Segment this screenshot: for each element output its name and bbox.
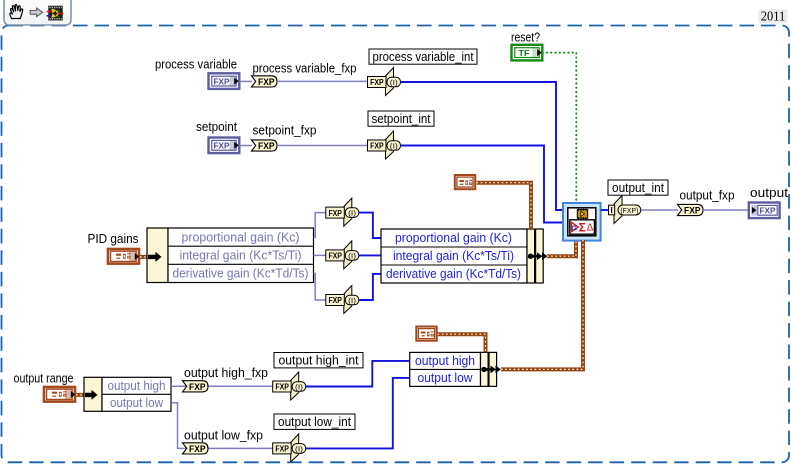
cluster constant above output bundle — [416, 327, 436, 341]
svg-text:process variable: process variable — [155, 58, 237, 72]
wire: cluster constant to output bundle (brown dotted) — [438, 334, 486, 352]
svg-text:FXP: FXP — [214, 76, 230, 86]
label: output high_fxp — [184, 366, 268, 380]
svg-text:derivative gain (Kc*Td/Ts): derivative gain (Kc*Td/Ts) — [173, 267, 309, 281]
wire label tag: output high FXP — [183, 381, 209, 392]
svg-text:FXP: FXP — [760, 206, 776, 216]
boxed label: output_int — [608, 180, 668, 195]
label: output_fxp — [680, 189, 735, 203]
toolbar panel — [4, 0, 71, 25]
wire: derivative gain fxp (slate) — [314, 273, 327, 300]
label: output — [750, 186, 789, 200]
toolbar VI icon — [47, 6, 64, 20]
wire label tag: output FXP — [678, 204, 704, 215]
wire: tag to conversion (fxp) — [277, 80, 368, 82]
control terminal: setpoint (FXP) — [209, 138, 240, 154]
svg-text:reset?: reset? — [511, 31, 540, 45]
wire: PID gains to unbundle (brown dotted) — [140, 255, 150, 259]
conversion node: proportional gain FXP to I — [326, 198, 359, 226]
bundle by name: output clamp — [410, 352, 501, 386]
control terminal: process variable (FXP) — [209, 73, 240, 89]
conversion node: integral gain FXP to I — [326, 241, 359, 269]
bundle by name: PID gains int — [381, 229, 548, 283]
svg-text:integral gain (Kc*Ts/Ti): integral gain (Kc*Ts/Ti) — [180, 249, 302, 263]
label: PID gains — [88, 232, 139, 246]
conversion node: output low FXP to I — [273, 434, 306, 462]
toolbar arrow icon — [30, 8, 42, 17]
wire: setpoint terminal to tag — [239, 145, 252, 147]
wire: conversion to output fxp tag (slate) — [641, 209, 678, 211]
svg-text:output_fxp: output_fxp — [680, 189, 735, 203]
wire: PID bundle to subVI (brown dotted) — [547, 240, 576, 256]
wire: output range to unbundle (brown dotted) — [76, 393, 87, 397]
svg-text:output low_fxp: output low_fxp — [184, 429, 263, 443]
conversion node: output I to FXP — [609, 196, 641, 224]
conversion node: output high FXP to I — [273, 372, 306, 400]
wire: integral gain int to bundle (blue) — [359, 254, 382, 256]
boxed label: process variable_int — [369, 49, 477, 64]
wire: tag to conversion — [277, 145, 368, 147]
wire: integral gain fxp (slate) — [314, 254, 327, 256]
svg-text:setpoint: setpoint — [196, 120, 237, 134]
label: process variable_fxp — [253, 62, 357, 76]
boxed label: output high_int — [274, 353, 363, 368]
wire: proportional gain int to bundle (blue) — [359, 213, 382, 238]
svg-text:output low: output low — [418, 371, 474, 385]
label: setpoint — [196, 120, 237, 134]
control terminal: reset? (TF boolean) — [512, 45, 543, 61]
svg-text:integral gain (Kc*Ts/Ti): integral gain (Kc*Ts/Ti) — [393, 249, 514, 263]
wire: output high int to bundle (blue) — [306, 361, 410, 387]
svg-text:TF: TF — [519, 48, 530, 58]
toolbar hand icon — [10, 5, 23, 19]
boxed label: setpoint_int — [368, 111, 434, 126]
label: setpoint_fxp — [253, 124, 317, 138]
label: reset? — [511, 31, 540, 45]
wire: subVI output to conversion (blue) — [601, 209, 609, 211]
svg-text:Δ: Δ — [587, 223, 594, 234]
conversion node: process variable FXP to I — [368, 68, 401, 96]
wire: reset? to subVI (green dotted) — [543, 53, 577, 203]
boxed label: output low_int — [274, 414, 355, 429]
svg-text:process variable_fxp: process variable_fxp — [253, 62, 357, 76]
svg-text:output low: output low — [110, 396, 164, 410]
wire label tag: setpoint FXP — [252, 140, 278, 151]
subVI: FXP PID node — [563, 203, 601, 241]
wire label tag: process variable FXP — [252, 76, 278, 87]
unbundle by name: PID gains — [147, 228, 314, 283]
svg-text:output_int: output_int — [612, 181, 664, 195]
svg-text:process variable_int: process variable_int — [373, 50, 474, 64]
control terminal: output range (cluster) — [44, 387, 75, 402]
wire: output bundle to subVI (brown dotted) — [501, 240, 583, 369]
svg-text:output high: output high — [108, 379, 166, 393]
svg-text:proportional gain (Kc): proportional gain (Kc) — [395, 231, 512, 245]
svg-text:setpoint_int: setpoint_int — [372, 112, 431, 126]
svg-text:FXP: FXP — [214, 141, 230, 151]
wire: process variable int to subVI (blue) — [401, 82, 564, 210]
svg-text:output high_fxp: output high_fxp — [184, 366, 268, 380]
label: output range — [14, 372, 74, 386]
wire: proportional gain fxp (slate) — [314, 213, 327, 238]
wire: tag to output indicator (slate) — [703, 209, 749, 211]
indicator terminal: output (FXP) — [749, 203, 780, 219]
wire: output low int to bundle (blue) — [306, 378, 410, 449]
svg-text:output range: output range — [14, 372, 74, 386]
svg-text:output low_int: output low_int — [278, 415, 351, 429]
wire label tag: output low FXP — [183, 443, 209, 454]
wire: output low fxp (slate) — [171, 403, 273, 449]
svg-text:PID gains: PID gains — [88, 232, 139, 246]
wire: pv terminal to tag (fxp) — [239, 80, 252, 82]
svg-text:proportional gain (Kc): proportional gain (Kc) — [182, 231, 300, 245]
svg-text:setpoint_fxp: setpoint_fxp — [253, 124, 317, 138]
unbundle by name: output range — [84, 377, 171, 411]
wire: setpoint int to subVI (blue) — [401, 146, 564, 223]
label: process variable — [155, 58, 237, 72]
conversion node: derivative gain FXP to I — [326, 286, 359, 314]
wire: derivative gain int to bundle (blue) — [359, 274, 382, 300]
2011 version tag — [759, 9, 788, 24]
svg-text:2011: 2011 — [761, 9, 786, 24]
svg-text:output: output — [750, 186, 789, 200]
svg-text:G: G — [571, 223, 577, 232]
svg-text:Σ: Σ — [579, 221, 586, 235]
svg-text:output high_int: output high_int — [279, 353, 360, 367]
wire: cluster constant to PID bundle (brown dotted) — [477, 183, 532, 229]
svg-text:derivative gain (Kc*Td/Ts): derivative gain (Kc*Td/Ts) — [386, 267, 521, 281]
control terminal: PID gains (cluster) — [108, 249, 139, 264]
wire: output high fxp (slate) — [171, 385, 273, 387]
conversion node: setpoint FXP to I — [368, 131, 401, 159]
svg-text:output high: output high — [415, 354, 475, 368]
cluster constant above PID bundle — [455, 175, 475, 189]
label: output low_fxp — [184, 429, 263, 443]
